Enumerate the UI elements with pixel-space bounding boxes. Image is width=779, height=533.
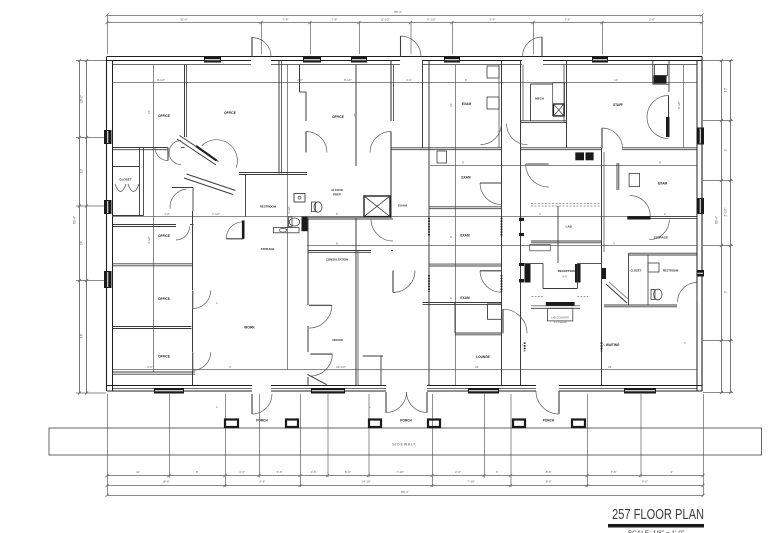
- dimension row bottom 3 overall: [107, 495, 703, 497]
- door midleft office arc: [176, 227, 190, 241]
- porch post 2: [286, 420, 298, 428]
- svg-text:16'-0”: 16'-0”: [80, 95, 84, 103]
- dimension row bottom 2: [107, 485, 703, 487]
- lab bench dark: [575, 152, 584, 160]
- wall y207 exam: [429, 206, 502, 208]
- interior dim line y369: [113, 369, 698, 371]
- outer wall right: [701, 57, 703, 392]
- wall office1 right x184: [184, 65, 186, 138]
- wall y122 mech bottom: [521, 120, 567, 122]
- svg-text:10': 10': [614, 78, 618, 82]
- door bottom 1 leaf: [251, 394, 253, 414]
- reception cabinets dark: [548, 308, 573, 321]
- svg-text:11': 11': [136, 470, 140, 474]
- diagonal door leaf: [196, 146, 217, 161]
- window top wall 5: [592, 57, 608, 63]
- porch post 5: [513, 420, 525, 428]
- door office1 arc: [155, 148, 168, 161]
- svg-text:7'-10”: 7'-10”: [467, 480, 475, 484]
- svg-text:1'-2 CLEAR: 1'-2 CLEAR: [553, 321, 566, 324]
- window right wall 2: [697, 198, 705, 214]
- wall x429: [428, 61, 430, 386]
- interior dim line y82: [113, 82, 698, 84]
- wall x356 upper: [355, 65, 357, 167]
- wall x308: [307, 218, 309, 305]
- interior dim vline x455: [455, 65, 457, 386]
- reception counter: [531, 307, 580, 309]
- door work room west lower arc: [193, 352, 211, 370]
- window right wall 1: [697, 128, 705, 145]
- wall x356 lower: [355, 218, 357, 385]
- door office2 arcs: [306, 132, 327, 153]
- corridor door frame dark a: [519, 218, 524, 221]
- window right wall 3: [697, 270, 705, 277]
- svg-text:8'-6”: 8'-6”: [546, 470, 552, 474]
- exam door arc 2: [480, 271, 502, 293]
- svg-text:3'-1/2”: 3'-1/2”: [147, 236, 151, 244]
- reception sill dark: [546, 302, 575, 306]
- wall y327 office: [113, 326, 192, 328]
- wall x502: [501, 61, 503, 386]
- dimension column right: [721, 60, 723, 392]
- dashed interior window x429 b: [428, 275, 430, 292]
- interior dim vline x153: [153, 65, 155, 373]
- window left wall 3: [104, 271, 112, 288]
- wall y217 storage top: [651, 216, 698, 218]
- door bottom 3 arc: [536, 391, 559, 414]
- svg-text:18'-6”: 18'-6”: [162, 480, 170, 484]
- staff big door arc: [647, 96, 669, 139]
- svg-text:21': 21': [449, 103, 453, 107]
- corridor cross door arcs: [481, 124, 502, 145]
- wall x602: [601, 148, 603, 385]
- wall x280 upper: [278, 61, 280, 174]
- svg-text:7'-8”: 7'-8”: [283, 17, 289, 21]
- wall y264 office: [113, 263, 193, 265]
- svg-text:9'-1/2”: 9'-1/2”: [427, 17, 435, 21]
- dashed interior window x502 b: [501, 275, 503, 292]
- interior dim line y216: [113, 216, 698, 218]
- svg-text:EXAM: EXAM: [398, 204, 407, 208]
- porch post 6: [572, 420, 585, 428]
- svg-text:2'-6”: 2'-6”: [455, 470, 461, 474]
- door top 2 arc: [401, 36, 422, 57]
- closet bifold door: [115, 184, 139, 192]
- svg-text:9'-1/2”: 9'-1/2”: [677, 101, 681, 109]
- wall x530 mech: [530, 84, 532, 121]
- door top 1 leaf: [251, 37, 253, 57]
- big door arcs x628-650: [630, 196, 651, 217]
- svg-text:21': 21': [147, 110, 151, 114]
- dashed interior window x502 a: [501, 218, 503, 236]
- dashed interior window x527: [524, 342, 526, 351]
- svg-text:PREP: PREP: [333, 193, 341, 197]
- svg-text:LAB COUNTER: LAB COUNTER: [551, 316, 569, 319]
- svg-text:7'-8”: 7'-8”: [332, 17, 338, 21]
- svg-text:4'-6”: 4'-6”: [239, 470, 245, 474]
- mech dashed cabinet: [553, 83, 565, 116]
- svg-text:24'-1/2”: 24'-1/2”: [336, 365, 345, 369]
- svg-text:2'-6”: 2'-6”: [490, 17, 496, 21]
- wall y288 reception: [543, 288, 578, 290]
- wall x455 lounge: [454, 303, 456, 333]
- svg-text:ALCOVE: ALCOVE: [331, 188, 343, 192]
- kitchenette: [652, 61, 654, 85]
- svg-text:PORCH: PORCH: [256, 419, 268, 423]
- wall y333 lounge top: [455, 332, 502, 334]
- door top 3 leaf: [541, 37, 543, 57]
- ante room top wall: [239, 172, 307, 174]
- window bottom wall 3: [468, 388, 499, 394]
- shaft box: [364, 196, 390, 217]
- wall y253 storage bottom: [629, 252, 698, 254]
- toilet 1: [314, 202, 322, 212]
- wall x559 lab: [557, 206, 559, 263]
- interior dim line y245: [307, 245, 697, 247]
- wall y303 exam bottom: [423, 302, 502, 304]
- svg-text:89'-4”: 89'-4”: [401, 490, 409, 494]
- svg-text:LOUNGE: LOUNGE: [476, 355, 490, 359]
- wall x423 chase: [422, 61, 424, 149]
- svg-text:7'-6”: 7'-6”: [611, 470, 617, 474]
- exam closet nook: [437, 151, 447, 163]
- mech dark box: [554, 104, 565, 116]
- door top 1 arc: [252, 38, 271, 57]
- exam door arc 1: [480, 183, 502, 205]
- svg-text:STORAGE: STORAGE: [261, 247, 275, 251]
- svg-text:7'-10”: 7'-10”: [396, 470, 404, 474]
- window top wall 4: [444, 57, 460, 63]
- svg-text:CLOSET: CLOSET: [119, 178, 131, 182]
- sidewalk band: [49, 428, 762, 455]
- interior dim vline x287: [287, 65, 289, 371]
- svg-text:1'-6”: 1'-6”: [297, 78, 303, 82]
- interior dim vline x683: [683, 65, 685, 149]
- outer wall bottom: [107, 385, 252, 387]
- vanity counter: [273, 228, 299, 233]
- svg-text:3'-1/2”: 3'-1/2”: [287, 206, 291, 214]
- wall y84 mech: [531, 83, 553, 85]
- consultation top wall: [308, 250, 371, 252]
- cabinet nook corridor 2: [487, 97, 499, 109]
- wall y263 reception: [524, 262, 543, 264]
- dimension line top segments: [107, 22, 702, 24]
- porch post 4: [428, 420, 440, 428]
- wall y148 exam top: [423, 147, 502, 149]
- restroom door arc: [226, 222, 243, 239]
- door bottom 2 arc right: [407, 392, 428, 413]
- svg-text:2'-6”: 2'-6”: [649, 17, 655, 21]
- consultation door arc: [371, 219, 393, 241]
- sink 1: [294, 194, 305, 203]
- svg-text:WAITING: WAITING: [606, 343, 620, 347]
- svg-text:24': 24': [475, 365, 479, 369]
- svg-text:PORCH: PORCH: [400, 419, 412, 423]
- wall jog x299: [299, 65, 301, 93]
- svg-text:31'-6”: 31'-6”: [180, 17, 188, 21]
- dimension extension lines bottom: [107, 394, 109, 496]
- restroom right door arc: [678, 283, 698, 303]
- wall y218 restroom bottom: [308, 216, 391, 218]
- wall y148 far right: [622, 147, 697, 149]
- svg-text:CLOSET: CLOSET: [630, 268, 641, 272]
- closet walls: [139, 148, 141, 216]
- wall y373 left rooms: [113, 371, 196, 373]
- door bottom 2 arc left: [386, 392, 407, 413]
- wall y264 exam: [429, 263, 502, 265]
- reception door jamb dark left: [525, 264, 531, 283]
- work room door top arc: [309, 305, 332, 328]
- svg-text:OFFICE: OFFICE: [332, 338, 343, 342]
- svg-text:8'-6”: 8'-6”: [260, 480, 266, 484]
- svg-text:3'-6”: 3'-6”: [311, 470, 317, 474]
- svg-text:EXAM: EXAM: [460, 234, 470, 238]
- svg-text:EXAM: EXAM: [460, 296, 470, 300]
- lab box: [629, 173, 640, 186]
- diagonal vestibule arc lower: [170, 189, 186, 209]
- reception dashed counters: [532, 296, 545, 298]
- big door x628-650 leaf: [627, 216, 650, 219]
- corridor door frame dark b: [519, 263, 524, 266]
- door top 2 leaf: [400, 36, 402, 57]
- svg-text:OFFICE: OFFICE: [158, 234, 170, 238]
- window top wall 1: [204, 57, 221, 63]
- wall office1 bottom y148: [113, 147, 169, 149]
- svg-text:24': 24': [608, 365, 612, 369]
- window left wall 2: [104, 200, 112, 214]
- wall x648 closet divider: [647, 255, 649, 306]
- door bottom 3 leaf: [558, 391, 560, 414]
- door top 3 arc: [523, 37, 543, 57]
- wall x192 lower: [192, 309, 194, 353]
- svg-text:7'-1/2”: 7'-1/2”: [212, 212, 220, 216]
- door lower exam arc: [526, 164, 549, 187]
- outer wall left: [106, 57, 108, 392]
- lab cabinets small: [530, 245, 551, 251]
- door lab arc x602: [602, 128, 623, 149]
- svg-text:9': 9': [724, 148, 728, 151]
- door bottom 2 leaf left: [385, 392, 387, 413]
- svg-text:EXAM: EXAM: [462, 102, 472, 106]
- window left wall 1: [104, 130, 112, 144]
- door bottom 2 leaf right: [426, 392, 428, 413]
- window bottom wall 4: [624, 388, 656, 394]
- svg-text:24': 24': [80, 241, 84, 246]
- work room door bottom arc: [310, 354, 332, 376]
- svg-text:8'-6”: 8'-6”: [546, 480, 552, 484]
- dimension row bottom 1: [107, 475, 703, 477]
- door consult east arc: [393, 271, 415, 293]
- svg-text:PORCH: PORCH: [543, 419, 555, 423]
- svg-text:9': 9': [724, 290, 728, 293]
- toilet 2: [289, 218, 299, 226]
- svg-text:8'-1/2”: 8'-1/2”: [344, 78, 352, 82]
- dashed interior window x602: [601, 342, 603, 351]
- wall jog work right: [363, 355, 384, 357]
- work room bottom jog: [308, 374, 327, 384]
- svg-text:10': 10': [80, 169, 84, 174]
- svg-text:CONSULTATION: CONSULTATION: [326, 258, 348, 262]
- door bottom 1 arc: [252, 394, 272, 414]
- lab dashed counters: [531, 203, 600, 205]
- window bottom wall 1: [154, 388, 184, 394]
- toilet right: [654, 289, 662, 300]
- svg-text:OFFICE: OFFICE: [158, 297, 170, 301]
- staff leaf dark: [666, 117, 670, 137]
- diagonal vestibule arc big: [202, 140, 238, 168]
- wall y305 right bottom: [604, 304, 677, 306]
- reception door jamb dark right: [575, 264, 581, 283]
- cabinet nook corridor 1: [487, 66, 499, 78]
- svg-text:LAB: LAB: [566, 225, 573, 229]
- lounge door arc: [503, 309, 527, 333]
- svg-text:RECEPTION: RECEPTION: [558, 269, 575, 273]
- dashed interior window x429 a: [428, 218, 430, 236]
- wall x391: [390, 61, 392, 122]
- svg-text:RESTROOM: RESTROOM: [260, 205, 277, 209]
- svg-text:S I D E W A L K: S I D E W A L K: [392, 443, 416, 447]
- wall x245 restroom: [245, 175, 247, 217]
- black wall stub x242: [242, 220, 245, 238]
- interior top wall face: [113, 64, 252, 66]
- svg-text:STAFF: STAFF: [613, 103, 623, 107]
- svg-text:EXAM: EXAM: [461, 176, 471, 180]
- dimension extension lines top: [261, 23, 263, 55]
- diagonal wall upper: [177, 139, 216, 165]
- svg-text:MECH: MECH: [535, 97, 544, 101]
- wall y148 right section: [521, 147, 602, 149]
- svg-text:18': 18': [80, 334, 84, 339]
- svg-text:5'-6”: 5'-6”: [277, 470, 283, 474]
- svg-text:8'-1/2”: 8'-1/2”: [157, 78, 165, 82]
- wall x543 reception: [542, 263, 544, 288]
- reception door jamb dark x602: [602, 268, 607, 279]
- black wall stub restrooms: [302, 217, 308, 232]
- wall x577 reception: [577, 263, 579, 288]
- wall x566 staff: [566, 61, 568, 149]
- window top wall 2: [303, 57, 321, 63]
- wall y226 office: [113, 224, 177, 226]
- svg-text:WORK: WORK: [244, 326, 255, 330]
- svg-text:EXAM: EXAM: [658, 181, 668, 185]
- lounge closet box: [488, 304, 502, 319]
- outer wall top: [107, 56, 702, 58]
- svg-text:11'-10”: 11'-10”: [380, 17, 389, 21]
- svg-text:1'-6”: 1'-6”: [164, 212, 170, 216]
- svg-text:STORAGE: STORAGE: [654, 236, 668, 240]
- dimension line top overall 89ft: [107, 15, 702, 17]
- sink right: [648, 263, 659, 272]
- svg-text:RESTROOM: RESTROOM: [663, 268, 679, 272]
- svg-text:69'-4”: 69'-4”: [73, 216, 77, 224]
- porch post 3: [369, 420, 381, 428]
- wall y241 lab bottom: [531, 240, 601, 242]
- svg-text:14'-10”: 14'-10”: [361, 480, 370, 484]
- title underline: [608, 524, 704, 528]
- wall x521 corridor: [520, 61, 522, 386]
- diagonal wall lower: [184, 178, 233, 195]
- diagonal vestibule arc left: [169, 141, 181, 165]
- svg-text:5'-6”: 5'-6”: [345, 470, 351, 474]
- door work room west upper arc: [193, 291, 211, 309]
- svg-text:7'-6”: 7'-6”: [565, 17, 571, 21]
- svg-text:OFFICE: OFFICE: [332, 115, 344, 119]
- wall x617 lab: [616, 163, 618, 190]
- svg-text:10': 10': [724, 88, 728, 93]
- svg-text:9'-6”: 9'-6”: [642, 480, 648, 484]
- svg-text:OFFICE: OFFICE: [158, 114, 170, 118]
- svg-text:3'-2”: 3'-2”: [406, 78, 412, 82]
- svg-text:OFFICE: OFFICE: [224, 111, 236, 115]
- svg-text:2'-1/2”: 2'-1/2”: [724, 208, 728, 217]
- vestibule jog wall: [172, 187, 193, 189]
- svg-text:257 FLOOR PLAN: 257 FLOOR PLAN: [612, 506, 704, 523]
- wall x628 closet: [628, 253, 630, 305]
- window bottom wall 2: [311, 388, 345, 394]
- svg-text:89'-4”: 89'-4”: [394, 10, 402, 14]
- dimension column left: [79, 60, 81, 393]
- porch post 1: [225, 420, 238, 428]
- window top wall 3: [351, 57, 367, 63]
- svg-text:69'-4”: 69'-4”: [715, 216, 719, 224]
- closet diagonal door: [606, 284, 627, 303]
- wall x192 upper: [192, 211, 194, 290]
- wall y148 entry south: [391, 147, 423, 149]
- interior dim line y165: [430, 165, 697, 167]
- svg-text:OFFICE: OFFICE: [158, 355, 170, 359]
- svg-text:2'-2”: 2'-2”: [147, 365, 153, 369]
- svg-text:9'-6”: 9'-6”: [562, 275, 567, 279]
